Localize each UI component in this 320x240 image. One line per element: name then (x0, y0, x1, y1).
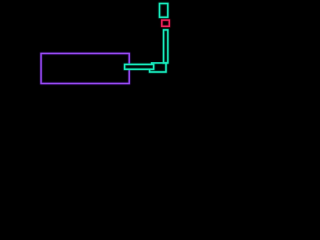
component R1 (cyan bar body) black fill (125, 64, 154, 69)
component U1 (purple IC body) glow (41, 53, 129, 83)
wire loop: from R1 bottom down, right, up (150, 63, 166, 72)
component C1 (green rectangle, top right) (160, 4, 168, 18)
wire net: step from R1 top-right to horizontal wire (152, 63, 168, 65)
component R1 (cyan bar body) (125, 64, 154, 69)
component J1 (narrow vertical connector body) glow (164, 30, 168, 63)
component U1 (purple IC body) (41, 53, 129, 83)
wire net: step from R1 top-right up to node wire glow (152, 63, 168, 65)
component C1 (green rectangle, top right) glow (160, 4, 168, 18)
component J1 (narrow vertical connector body) (164, 30, 168, 63)
component D1 (red rectangle) (162, 20, 170, 26)
component D1 (red rectangle) glow (162, 20, 170, 26)
component R1 (cyan bar body) glow (125, 64, 154, 69)
wire loop: from R1 bottom down, right, and up to node glow (150, 63, 166, 72)
